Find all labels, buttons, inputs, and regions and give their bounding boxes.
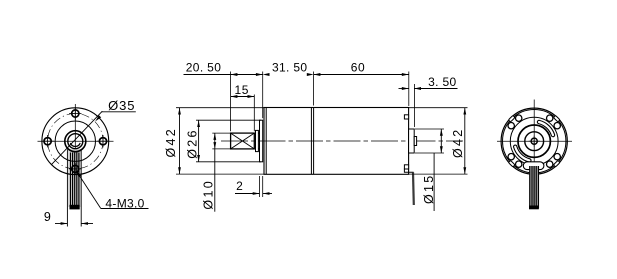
left view shaft circlip bottom arc	[70, 143, 80, 146]
side view rear wire	[412, 172, 415, 205]
left view centerlines	[38, 140, 114, 142]
rear view small holes	[554, 123, 560, 129]
leader line diameter 35	[52, 111, 103, 164]
side view case front lip line	[265, 108, 267, 175]
rear view outer circle	[501, 108, 567, 174]
dimension 15	[231, 96, 255, 98]
rear view kidney slot lower left	[515, 147, 529, 161]
side view front plate diam 26	[260, 120, 263, 162]
dimension 31.50	[263, 73, 270, 76]
rear view bearing circle	[525, 132, 544, 151]
svg-text:Ø26: Ø26	[186, 128, 200, 159]
dimension 9	[55, 223, 67, 225]
rear view cover circle	[503, 110, 566, 173]
left view bearing circle	[68, 134, 83, 149]
rear view wire bundle end cap	[530, 206, 539, 209]
side view gearbox-motor joint lines	[310, 108, 312, 175]
dimension diam 42 left	[176, 107, 264, 109]
left view bolt circle diam 35 dashed	[48, 114, 103, 169]
left view outer circle (flange diam 42)	[42, 108, 109, 175]
rear view boss circle	[518, 125, 550, 157]
svg-text:Ø35: Ø35	[108, 98, 135, 113]
left view shaft tip cap	[70, 205, 79, 209]
dimension 20.50	[184, 74, 238, 76]
dimension 2	[259, 176, 261, 197]
svg-text:60: 60	[351, 60, 366, 74]
svg-text:3. 50: 3. 50	[428, 75, 456, 89]
left view middle circle	[55, 121, 95, 161]
dimension diam 26	[196, 119, 261, 121]
side view shaft knurl box with X	[231, 133, 255, 149]
svg-text:Ø10: Ø10	[202, 179, 216, 210]
leader 4-M3.0	[76, 171, 101, 209]
extension line shaft tip	[230, 72, 232, 132]
dimension diam 10	[212, 132, 230, 134]
left view shaft hatch lines	[70, 153, 72, 206]
rear view centerlines	[497, 140, 572, 142]
svg-text:31. 50: 31. 50	[272, 60, 307, 74]
side view washer	[256, 130, 259, 151]
rear view crimp tabs at diagonals	[553, 115, 560, 122]
side view rear bearing nub	[414, 137, 416, 146]
svg-text:Ø15: Ø15	[422, 173, 436, 204]
svg-text:20. 50: 20. 50	[186, 60, 221, 74]
rear view wire exit obround	[523, 162, 544, 170]
side view shaft diam 10	[231, 132, 260, 134]
dimension diam 15 rear boss	[415, 128, 444, 130]
extension line boss end	[413, 84, 415, 127]
dimension 3.50	[399, 88, 409, 90]
side view rear tab bottom with bracket	[404, 165, 408, 169]
left view 4 mounting holes M3	[72, 110, 79, 117]
side view rear tab top	[404, 115, 408, 119]
svg-text:9: 9	[44, 210, 51, 224]
extension line joint	[313, 72, 315, 106]
dimension diam 42 right	[409, 107, 468, 109]
side view rear boss diam 15	[409, 129, 415, 153]
rear view inner circle	[510, 117, 558, 165]
side view centerline	[221, 140, 463, 142]
rear view wire bundle	[529, 166, 538, 209]
svg-text:Ø42: Ø42	[451, 127, 465, 158]
rear view kidney slot upper right	[539, 122, 553, 135]
left view shaft strip gray band	[68, 149, 81, 207]
svg-text:Ø42: Ø42	[164, 127, 178, 158]
svg-text:2: 2	[236, 179, 243, 193]
svg-text:15: 15	[235, 83, 250, 97]
extension line rear face	[408, 72, 410, 107]
extension line plate face	[262, 72, 264, 119]
rear view center hole	[531, 138, 537, 144]
left view shaft strip side lines	[66, 150, 68, 227]
dimension 60	[314, 74, 409, 76]
svg-text:4-M3.0: 4-M3.0	[105, 196, 144, 210]
side view gearbox and motor body outline	[264, 108, 409, 175]
extension line knurl right	[253, 95, 255, 132]
left view boss circle	[65, 131, 86, 152]
